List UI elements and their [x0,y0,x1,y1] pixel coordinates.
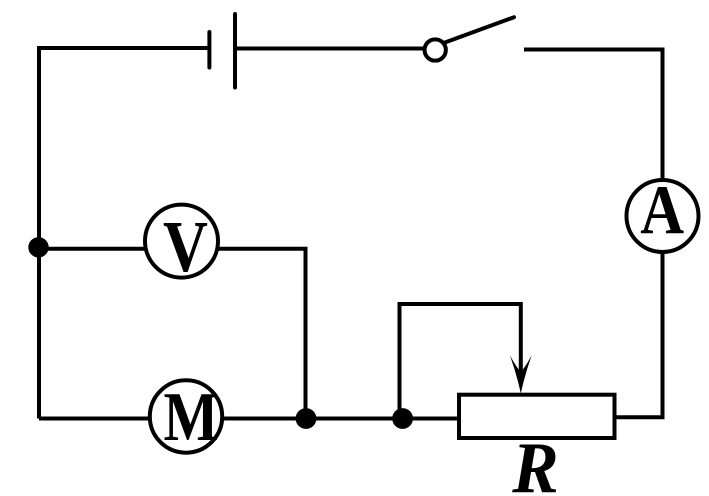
svg-text:M: M [164,378,219,455]
svg-text:V: V [163,207,208,288]
svg-text:A: A [640,172,684,249]
svg-text:R: R [511,428,558,496]
